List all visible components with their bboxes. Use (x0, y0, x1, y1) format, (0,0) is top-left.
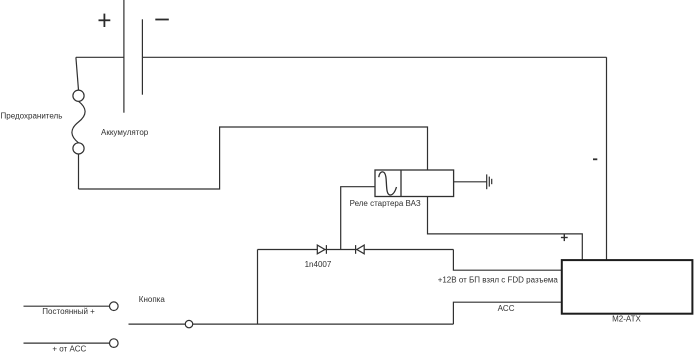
svg-text:M2-ATX: M2-ATX (612, 315, 641, 324)
svg-text:+ от ACC: + от ACC (52, 344, 86, 353)
svg-text:Кнопка: Кнопка (139, 295, 166, 304)
svg-text:1n4007: 1n4007 (305, 260, 332, 269)
svg-text:Аккумулятор: Аккумулятор (101, 128, 149, 137)
svg-text:Предохранитель: Предохранитель (1, 112, 63, 121)
svg-text:Постоянный +: Постоянный + (42, 307, 95, 316)
svg-text:+12В от БП взял с FDD разъема: +12В от БП взял с FDD разъема (438, 276, 559, 285)
svg-text:Реле стартера ВАЗ: Реле стартера ВАЗ (350, 199, 421, 208)
svg-text:ACC: ACC (498, 304, 515, 313)
